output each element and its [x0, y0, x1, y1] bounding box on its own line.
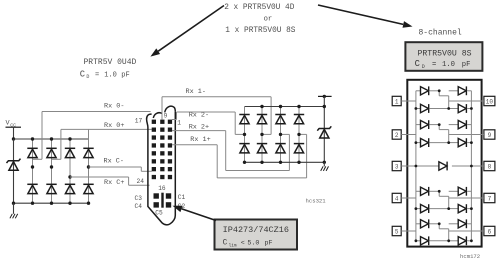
- node block 1: [438, 89, 441, 92]
- lower diode column 4 (right array): [294, 144, 304, 153]
- upper diode column 4 (right array): [294, 115, 304, 124]
- pin 3 (IC left): [392, 161, 401, 170]
- connector pin grid 3x8: [152, 120, 172, 180]
- diode block 2 upper-left: [421, 120, 429, 129]
- arrow from IP4273 box to connector C2: [182, 209, 217, 221]
- lower diode column 1 (right array): [239, 144, 249, 153]
- diode block 2 upper-right: [458, 120, 466, 129]
- node gnd-rail left end: [12, 202, 15, 205]
- pin 9 (IC right): [484, 130, 495, 139]
- connector shell top arcs: [153, 113, 162, 118]
- node zener/rail bottom: [323, 161, 326, 164]
- diode block 4 upper-right: [458, 219, 466, 228]
- node rail bottom col 3 (right): [279, 161, 282, 164]
- node rail bottom col 3: [68, 202, 71, 205]
- connector C5 blade: [161, 193, 163, 208]
- Vcc supply tick: [6, 126, 22, 128]
- node block 4: [438, 222, 441, 225]
- wire gnd rail (left array): [14, 202, 89, 204]
- zener diode (left array): [7, 159, 21, 171]
- upper diode column 1 (right array): [239, 115, 249, 124]
- wire column 3 vertical: [69, 139, 71, 203]
- node rail bottom col 2: [50, 202, 53, 205]
- pin 7 (IC right): [484, 193, 495, 202]
- svg-text:<: <: [241, 240, 245, 248]
- svg-text:3: 3: [395, 163, 399, 170]
- svg-text:lim: lim: [229, 243, 237, 248]
- svg-text:pF: pF: [462, 61, 471, 69]
- connector C1-C4 pins: [154, 193, 172, 207]
- IC U1 body (PRTR5V0U8S): [407, 80, 481, 247]
- upper diode column 3 (left array): [65, 148, 75, 157]
- IC internal Vcc rail (right): [470, 91, 472, 241]
- lower diode column 3 (left array): [65, 184, 75, 193]
- upper diode column 2 (left array): [46, 148, 56, 157]
- svg-text:8-channel: 8-channel: [419, 28, 462, 37]
- svg-text:Rx 1-: Rx 1-: [186, 88, 206, 96]
- node mid col 2 (right): [260, 133, 263, 136]
- node rail bottom col 2 (right): [260, 161, 263, 164]
- lower diode column 4 (left array): [83, 184, 93, 193]
- svg-text:C: C: [415, 59, 420, 69]
- wire Vcc rail (right array): [245, 106, 325, 108]
- svg-text:PRTR5V0U 8S: PRTR5V0U 8S: [417, 49, 471, 58]
- svg-text:2 x PRTR5V0U 4D: 2 x PRTR5V0U 4D: [224, 4, 295, 12]
- wire Rx 0+: [61, 128, 152, 130]
- svg-text:1.0: 1.0: [104, 71, 117, 79]
- svg-text:5: 5: [395, 228, 399, 235]
- channel block 1 wiring: [401, 91, 484, 109]
- node block 3: [438, 190, 441, 193]
- zener diode (right array): [317, 126, 331, 138]
- svg-text:hcs321: hcs321: [306, 197, 327, 204]
- pin 1 (IC left): [392, 96, 401, 105]
- wire Rx 2-: [176, 112, 178, 120]
- upper diode column 4 (left array): [83, 148, 93, 157]
- zener D_left between Vcc and GND: [13, 139, 15, 203]
- center zener wiring: [401, 165, 439, 167]
- node rail top col 3 (right): [279, 105, 282, 108]
- wire column 1 vertical: [32, 139, 34, 203]
- svg-text:1: 1: [177, 120, 181, 127]
- pin 6 (IC right): [484, 226, 495, 235]
- lower diode column 2 (left array): [46, 184, 56, 193]
- diode block 2 lower-left: [421, 138, 429, 147]
- svg-text:C: C: [223, 240, 228, 248]
- svg-text:C: C: [80, 69, 85, 79]
- wire Rx C+: [70, 176, 129, 178]
- svg-text:1: 1: [395, 98, 399, 105]
- pin 8 (IC right): [484, 161, 495, 170]
- svg-text:C5: C5: [155, 210, 163, 217]
- pin 4 (IC left): [392, 193, 401, 202]
- node rail top col 2 (right): [260, 105, 263, 108]
- svg-text:Rx 0+: Rx 0+: [104, 122, 124, 130]
- svg-text:pF: pF: [265, 240, 273, 248]
- svg-text:Rx 2-: Rx 2-: [189, 112, 209, 120]
- upper diode column 2 (right array): [257, 115, 267, 124]
- wire column 3 vertical (right array): [280, 107, 282, 163]
- diode block 1 upper-right: [458, 86, 466, 95]
- node rail bottom col 4 (right): [297, 161, 300, 164]
- svg-text:Rx C+: Rx C+: [104, 179, 124, 187]
- ground (right array): [321, 166, 329, 171]
- svg-text:9: 9: [488, 132, 492, 139]
- svg-text:D: D: [422, 64, 425, 70]
- wire Vcc stub down to rail: [13, 127, 15, 139]
- gnd stub right array: [323, 162, 325, 166]
- svg-text:Rx C-: Rx C-: [104, 157, 124, 165]
- diode block 3 upper-left: [421, 187, 429, 196]
- center zener diode (IC): [439, 162, 447, 171]
- node rail top col 4 (right): [297, 105, 300, 108]
- node mid col3 (lower tap): [68, 175, 71, 178]
- svg-text:=: =: [95, 71, 99, 79]
- svg-text:pF: pF: [121, 71, 129, 79]
- svg-text:17: 17: [135, 118, 143, 125]
- callout box PRTR5V0U8S: [405, 42, 482, 71]
- svg-text:Rx 1+: Rx 1+: [190, 136, 210, 144]
- node center left: [415, 165, 418, 168]
- wire Rx 0-: [42, 111, 151, 113]
- wire column 4 vertical: [88, 139, 90, 203]
- node mid col4: [87, 165, 90, 168]
- diode block 2 lower-right: [458, 138, 466, 147]
- diode block 4 lower-right: [458, 236, 466, 245]
- svg-text:Rx 2+: Rx 2+: [189, 123, 209, 131]
- svg-text:C3: C3: [135, 195, 143, 202]
- upper diode column 1 (left array): [27, 148, 37, 157]
- svg-text:1.0: 1.0: [442, 61, 455, 69]
- node mid col2: [50, 165, 53, 168]
- arrow to 8-channel device: [318, 5, 403, 24]
- svg-text:or: or: [264, 16, 273, 24]
- svg-text:C4: C4: [135, 203, 143, 210]
- node rail top col 1: [31, 137, 34, 140]
- wire Rx 1-: [161, 97, 163, 120]
- diode block 3 lower-right: [458, 204, 466, 213]
- diode block 3 upper-right: [458, 187, 466, 196]
- svg-text:=: =: [432, 61, 436, 69]
- node mid col 3 (right): [279, 133, 282, 136]
- svg-text:5.0: 5.0: [247, 240, 259, 248]
- diode block 4 lower-left: [421, 236, 429, 245]
- IC internal gnd rail (left): [415, 91, 417, 241]
- wire Rx 2+: [172, 130, 226, 132]
- wire column 1 vertical (right array): [244, 107, 246, 163]
- svg-text:4: 4: [395, 195, 399, 202]
- diode block 4 upper-left: [421, 219, 429, 228]
- node block 2: [438, 123, 441, 126]
- node rail bottom col 1 (right): [243, 161, 246, 164]
- node mid col1: [31, 165, 34, 168]
- wire column 4 vertical (right array): [298, 107, 300, 163]
- arrow to left circuit (PRTR5V0U4D): [158, 6, 224, 52]
- svg-text:hcm172: hcm172: [460, 253, 480, 260]
- svg-text:8: 8: [488, 163, 492, 170]
- svg-text:1 x PRTR5V0U 8S: 1 x PRTR5V0U 8S: [225, 27, 296, 35]
- svg-text:6: 6: [488, 228, 492, 235]
- pin 2 (IC left): [392, 130, 401, 139]
- lower diode column 3 (right array): [275, 144, 285, 153]
- wire zener column (right array): [323, 96, 325, 162]
- svg-text:10: 10: [486, 98, 494, 105]
- lower diode column 2 (right array): [257, 144, 267, 153]
- diode block 1 upper-left: [421, 86, 429, 95]
- svg-text:9: 9: [164, 112, 168, 119]
- node Vcc tick: [323, 95, 326, 98]
- channel block 2 wiring: [401, 125, 484, 143]
- svg-text:16: 16: [158, 185, 166, 192]
- diode block 3 lower-left: [421, 204, 429, 213]
- node mid col 4 (right): [297, 133, 300, 136]
- ground (left array): [10, 214, 18, 219]
- svg-text:IP4273/74CZ16: IP4273/74CZ16: [223, 225, 289, 235]
- wire Rx 1+: [172, 144, 217, 146]
- pin 10 (IC right): [484, 96, 495, 105]
- wire gnd rail (right array): [245, 161, 325, 163]
- callout box IP4273/74CZ16: [215, 220, 298, 250]
- svg-text:7: 7: [488, 195, 492, 202]
- channel block 4 wiring: [401, 224, 484, 241]
- Vcc tick (right array): [318, 95, 332, 97]
- node mid col 1 (right): [243, 133, 246, 136]
- node center right: [470, 165, 473, 168]
- wire column 2 vertical: [51, 139, 53, 203]
- node rail top col 2: [50, 137, 53, 140]
- diode block 1 lower-left: [421, 104, 429, 113]
- wire Vcc rail riser to interconnect: [88, 129, 90, 139]
- node Vcc-rail junction: [12, 137, 15, 140]
- lower diode column 1 (left array): [27, 184, 37, 193]
- wire Rx C-: [89, 166, 142, 168]
- svg-text:2: 2: [395, 132, 399, 139]
- svg-text:24: 24: [137, 178, 145, 185]
- connector J1 shell outline: [147, 112, 176, 225]
- wire Vcc rail (left array): [14, 138, 89, 140]
- channel block 3 wiring: [401, 191, 484, 208]
- node rail bottom col 1: [31, 202, 34, 205]
- node rail bottom col 4: [87, 202, 90, 205]
- pin 5 (IC left): [392, 226, 401, 235]
- wire column 2 vertical (right array): [261, 107, 263, 163]
- svg-text:D: D: [86, 74, 89, 80]
- node rail top col 3: [68, 137, 71, 140]
- svg-text:C1: C1: [178, 194, 186, 201]
- node zener/rail top: [323, 105, 326, 108]
- upper diode column 3 (right array): [275, 115, 285, 124]
- gnd stub left array: [13, 203, 15, 214]
- svg-text:PRTR5V 0U4D: PRTR5V 0U4D: [84, 58, 137, 67]
- svg-text:Rx 0-: Rx 0-: [104, 103, 124, 111]
- diode block 1 lower-right: [458, 104, 466, 113]
